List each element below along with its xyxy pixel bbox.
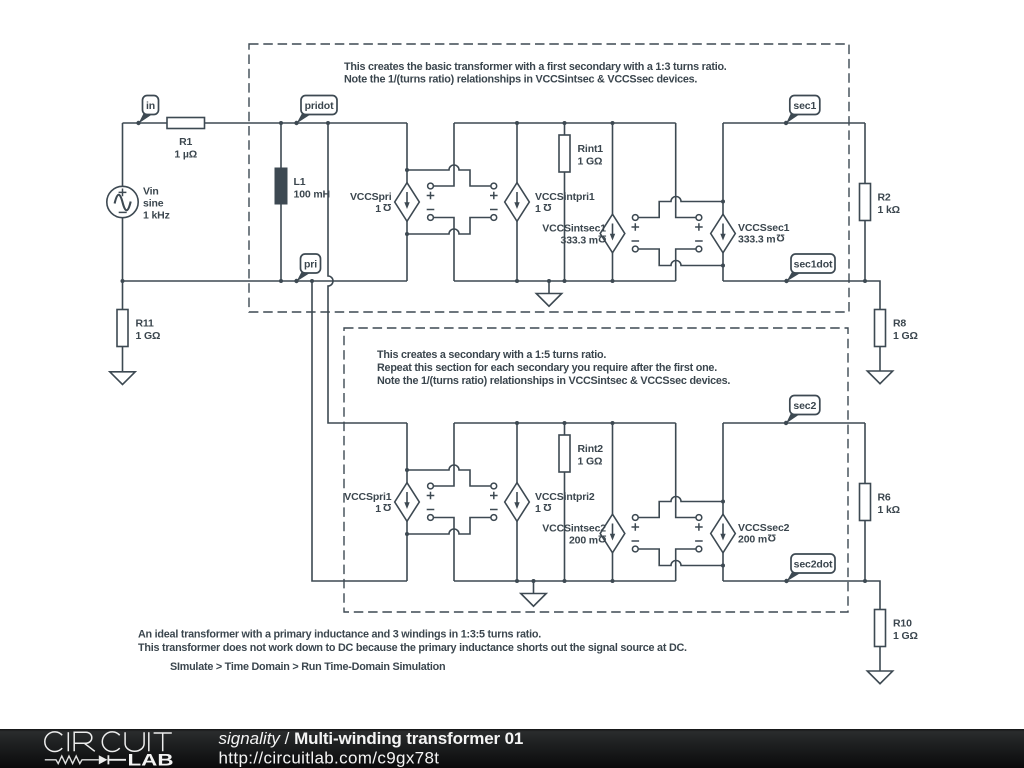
resistor R8 body xyxy=(875,310,886,347)
port terminal VCCSsec2 A- xyxy=(632,546,638,552)
svg-text:sine: sine xyxy=(143,198,164,210)
svg-text:1 kΩ: 1 kΩ xyxy=(878,204,900,216)
svg-text:R2: R2 xyxy=(878,192,891,204)
svg-text:R10: R10 xyxy=(893,618,912,630)
svg-text:1 GΩ: 1 GΩ xyxy=(893,630,918,642)
resistor Rint2 body xyxy=(559,435,570,472)
svg-text:200 m: 200 m xyxy=(738,533,767,545)
VCCS VCCSpri vertical wire xyxy=(406,123,408,281)
svg-text:This transformer does not work: This transformer does not work down to D… xyxy=(138,642,687,654)
svg-text:sec2dot: sec2dot xyxy=(794,558,833,570)
Vin sine glyph xyxy=(115,195,131,211)
svg-text:Note the 1/(turns ratio) relat: Note the 1/(turns ratio) relationships i… xyxy=(377,375,730,387)
port terminal VCCSpri B- xyxy=(491,215,497,221)
svg-text:pridot: pridot xyxy=(305,100,334,112)
port terminal VCCSpri A+ xyxy=(428,183,434,189)
svg-text:VCCSintsec2: VCCSintsec2 xyxy=(542,523,606,535)
junction VCCSpri top xyxy=(405,168,409,172)
wire R2 bottom to R8 xyxy=(865,281,880,310)
minus mark VCCSsec2 A xyxy=(632,540,640,542)
minus mark VCCSsec2 B xyxy=(695,540,703,542)
bottom bar xyxy=(0,729,1024,768)
junction Rint1 bottom rail xyxy=(563,279,567,283)
wire bottom rail secdot net section1 xyxy=(723,280,865,282)
dashed box: basic transformer section xyxy=(249,44,849,312)
junction pri vertical xyxy=(310,279,314,283)
ground below R10 xyxy=(879,647,881,672)
node flag sec1dot xyxy=(787,271,802,282)
wire top rail int net section2 xyxy=(454,422,676,424)
wire VCCSsec2 sense top (hop) xyxy=(638,497,723,518)
VCCS VCCSsec1 arrow xyxy=(722,224,724,237)
wire port right bottom VCCSsec2 xyxy=(676,549,696,581)
resistor R1 body xyxy=(167,118,205,129)
node flag sec2 xyxy=(786,413,800,424)
VCCS VCCSsec1 diamond xyxy=(711,214,736,253)
wire port left top VCCSpri xyxy=(433,123,454,186)
plus mark VCCSpri1 B xyxy=(490,492,498,500)
ground section1 xyxy=(548,281,550,294)
junction ground section2 xyxy=(532,579,536,583)
node flag sec2dot xyxy=(787,571,802,582)
Vin minus mark xyxy=(119,211,127,213)
plus mark VCCSsec2 B xyxy=(695,523,703,531)
VCCS VCCSintpri1 vertical wire xyxy=(516,123,518,281)
plus mark VCCSsec1 B xyxy=(695,223,703,231)
junction VCCSsec2 top xyxy=(721,500,725,504)
plus mark VCCSpri A xyxy=(427,192,435,200)
svg-text:Ω: Ω xyxy=(776,231,784,243)
wire port left bottom VCCSpri1 xyxy=(433,518,454,582)
ground below R11 xyxy=(122,347,124,372)
VCCS VCCSintsec2 vertical wire xyxy=(612,423,614,581)
plus mark VCCSsec2 A xyxy=(632,523,640,531)
wire port left top VCCSpri1 xyxy=(433,423,454,486)
wire bottom rail gnd net section1 xyxy=(454,280,676,282)
wire bottom rail pri net xyxy=(123,280,408,282)
svg-text:Rint2: Rint2 xyxy=(578,443,604,455)
VCCS VCCSpri arrow xyxy=(406,192,408,205)
wire top rail sec net section1 xyxy=(723,122,865,124)
svg-text:Ω: Ω xyxy=(598,533,606,545)
svg-text:Vin: Vin xyxy=(143,186,159,198)
junction VCCSpri1 top xyxy=(405,468,409,472)
resistor Rint2 wire xyxy=(564,423,566,581)
svg-text:1 GΩ: 1 GΩ xyxy=(136,330,161,342)
junction VCCSsec1 bottom xyxy=(721,264,725,268)
svg-text:Ω: Ω xyxy=(598,233,606,245)
svg-text:R1: R1 xyxy=(179,136,192,148)
port terminal VCCSpri1 B+ xyxy=(491,483,497,489)
port terminal VCCSsec2 B+ xyxy=(696,515,702,521)
junction Rint2 bottom rail xyxy=(563,579,567,583)
junction pridot vertical xyxy=(326,121,330,125)
svg-text:1: 1 xyxy=(535,503,541,515)
VCCS VCCSsec2 vertical wire xyxy=(722,423,724,581)
ground below R8 xyxy=(879,347,881,372)
voltage source Vin leads xyxy=(122,123,124,187)
svg-text:1 GΩ: 1 GΩ xyxy=(893,330,918,342)
svg-text:R8: R8 xyxy=(893,318,906,330)
CircuitLab logo: CIRCUIT (drawn letters) xyxy=(45,732,172,752)
resistor R11 body xyxy=(117,310,128,347)
svg-text:sec1dot: sec1dot xyxy=(794,258,833,270)
junction VCCSsec2 bottom xyxy=(721,564,725,568)
wire pri to section2 bottom rail xyxy=(312,281,407,581)
port terminal VCCSsec2 B- xyxy=(696,546,702,552)
voltage source Vin circle xyxy=(107,186,138,217)
svg-text:Rint1: Rint1 xyxy=(578,143,604,155)
plus mark VCCSpri B xyxy=(490,192,498,200)
wire port left bottom VCCSpri xyxy=(433,218,454,282)
resistor R1 wire xyxy=(123,122,408,124)
svg-text:LAB: LAB xyxy=(128,750,174,768)
junction VCCSintpri2 top rail xyxy=(515,421,519,425)
plus mark VCCSsec1 A xyxy=(632,223,640,231)
svg-text:Ω: Ω xyxy=(543,501,551,513)
port terminal VCCSpri1 B- xyxy=(491,515,497,521)
VCCS VCCSintpri2 diamond xyxy=(505,483,530,522)
svg-text:sec2: sec2 xyxy=(793,400,816,412)
VCCS VCCSpri1 vertical wire xyxy=(406,423,408,581)
VCCS VCCSpri diamond xyxy=(395,183,420,222)
svg-text:1: 1 xyxy=(375,203,381,215)
junction R6/R10 xyxy=(863,579,867,583)
svg-text:100 mH: 100 mH xyxy=(294,189,330,201)
resistor R2 body xyxy=(860,184,871,221)
VCCS VCCSintpri1 diamond xyxy=(505,183,530,222)
resistor R2 wire xyxy=(864,123,866,281)
wire VCCSpri1 sense top (hop) xyxy=(407,465,491,486)
wire top rail sec net section2 xyxy=(723,422,865,424)
VCCS VCCSintsec2 arrow xyxy=(612,524,614,537)
svg-text:sec1: sec1 xyxy=(793,100,816,112)
junction R2/R8 xyxy=(863,279,867,283)
resistor R10 body xyxy=(875,610,886,647)
svg-text:1 GΩ: 1 GΩ xyxy=(578,456,603,468)
junction VCCSintsec2 bottom rail xyxy=(611,579,615,583)
wire VCCSsec1 sense top (hop) xyxy=(638,197,723,218)
port terminal VCCSsec1 B+ xyxy=(696,215,702,221)
inductor L1 wire xyxy=(280,123,282,281)
junction VCCSintpri1 top rail xyxy=(515,121,519,125)
VCCS VCCSintsec1 arrow xyxy=(612,224,614,237)
wire top rail int net section1 xyxy=(454,122,676,124)
port terminal VCCSsec1 A+ xyxy=(632,215,638,221)
minus mark VCCSpri B xyxy=(490,209,498,211)
node flag in xyxy=(139,113,153,124)
wire VCCSsec1 sense bottom (hop) xyxy=(638,249,723,266)
VCCS VCCSsec2 diamond xyxy=(711,514,736,553)
CircuitLab logo: resistor+diode glyph xyxy=(45,756,99,764)
node flag pri xyxy=(297,271,311,282)
wire VCCSpri sense top (hop) xyxy=(407,165,491,186)
VCCS VCCSpri1 arrow xyxy=(406,492,408,505)
junction VCCSintsec1 bottom rail xyxy=(611,279,615,283)
wire port right bottom VCCSsec1 xyxy=(676,249,696,281)
dashed box: 1:5 secondary section xyxy=(344,328,848,612)
junction VCCSpri1 bottom xyxy=(405,532,409,536)
svg-text:L1: L1 xyxy=(294,176,306,188)
VCCS VCCSintpri2 arrow xyxy=(516,492,518,505)
junction VCCSsec1 top xyxy=(721,200,725,204)
port terminal VCCSsec2 A+ xyxy=(632,515,638,521)
wire pridot to section2 top rail (hops over pri rail) xyxy=(328,123,407,423)
port terminal VCCSsec1 A- xyxy=(632,246,638,252)
svg-text:http://circuitlab.com/c9gx78t: http://circuitlab.com/c9gx78t xyxy=(219,749,440,768)
svg-text:1 kΩ: 1 kΩ xyxy=(878,504,900,516)
svg-text:Repeat this section for each s: Repeat this section for each secondary y… xyxy=(377,362,717,374)
svg-text:Ω: Ω xyxy=(768,531,776,543)
junction ground section1 xyxy=(547,279,551,283)
svg-text:1 kHz: 1 kHz xyxy=(143,210,170,222)
wire bottom rail secdot net section2 xyxy=(723,580,865,582)
VCCS VCCSintpri1 arrow xyxy=(516,192,518,205)
VCCS VCCSsec2 arrow xyxy=(722,524,724,537)
wire port right top VCCSsec2 xyxy=(676,423,696,518)
VCCS VCCSintsec1 diamond xyxy=(600,214,625,253)
resistor R6 wire xyxy=(864,423,866,581)
VCCS VCCSintpri2 vertical wire xyxy=(516,423,518,581)
svg-text:1: 1 xyxy=(375,503,381,515)
svg-text:SImulate > Time Domain > Run T: SImulate > Time Domain > Run Time-Domain… xyxy=(170,661,445,673)
resistor R11 wire xyxy=(122,281,124,347)
junction Rint2 top rail xyxy=(563,421,567,425)
svg-text:VCCSsec2: VCCSsec2 xyxy=(738,522,790,534)
wire VCCSsec2 sense bottom (hop) xyxy=(638,549,723,566)
junction VCCSintpri2 bottom rail xyxy=(515,579,519,583)
svg-text:signality / Multi-winding tran: signality / Multi-winding transformer 01 xyxy=(219,729,524,748)
wire port right top VCCSsec1 xyxy=(676,123,696,218)
VCCS VCCSintsec1 vertical wire xyxy=(612,123,614,281)
junction Vin/R11/rail xyxy=(121,279,125,283)
ground section2 xyxy=(533,581,535,594)
wire VCCSpri sense bottom (hop) xyxy=(407,218,491,235)
inductor L1 body xyxy=(275,168,288,205)
svg-text:200 m: 200 m xyxy=(569,534,598,546)
node flag pridot xyxy=(297,113,312,124)
junction L1 top xyxy=(279,121,283,125)
svg-text:333.3 m: 333.3 m xyxy=(561,234,598,246)
junction VCCSintpri1 bottom rail xyxy=(515,279,519,283)
resistor R6 body xyxy=(860,484,871,521)
minus mark VCCSpri A xyxy=(427,209,435,211)
junction VCCSpri bottom xyxy=(405,232,409,236)
svg-text:1: 1 xyxy=(535,203,541,215)
VCCS VCCSintsec2 diamond xyxy=(600,514,625,553)
svg-text:pri: pri xyxy=(304,258,317,270)
resistor Rint1 body xyxy=(559,135,570,172)
wire bottom rail gnd net section2 xyxy=(454,580,676,582)
VCCS VCCSpri1 diamond xyxy=(395,483,420,522)
wire VCCSpri1 sense bottom (hop) xyxy=(407,518,491,535)
port terminal VCCSpri A- xyxy=(428,215,434,221)
svg-text:Ω: Ω xyxy=(543,201,551,213)
Vin plus mark xyxy=(119,189,127,197)
svg-text:1 µΩ: 1 µΩ xyxy=(174,149,197,161)
svg-text:Ω: Ω xyxy=(383,201,391,213)
svg-text:This creates a secondary with: This creates a secondary with a 1:5 turn… xyxy=(377,349,606,361)
minus mark VCCSpri1 B xyxy=(490,509,498,511)
port terminal VCCSpri1 A- xyxy=(428,515,434,521)
junction VCCSintsec1 top rail xyxy=(611,121,615,125)
port terminal VCCSpri B+ xyxy=(491,183,497,189)
svg-text:VCCSintsec1: VCCSintsec1 xyxy=(542,223,606,235)
port terminal VCCSpri1 A+ xyxy=(428,483,434,489)
minus mark VCCSsec1 A xyxy=(632,240,640,242)
svg-text:R11: R11 xyxy=(136,318,155,330)
junction Rint1 top rail xyxy=(563,121,567,125)
minus mark VCCSpri1 A xyxy=(427,509,435,511)
svg-text:Ω: Ω xyxy=(383,501,391,513)
svg-text:1 GΩ: 1 GΩ xyxy=(578,156,603,168)
junction VCCSintsec2 top rail xyxy=(611,421,615,425)
junction L1 bottom xyxy=(279,279,283,283)
svg-text:333.3 m: 333.3 m xyxy=(738,233,775,245)
svg-text:This creates the basic transfo: This creates the basic transformer with … xyxy=(344,61,727,73)
svg-text:in: in xyxy=(146,100,155,112)
node flag sec1 xyxy=(786,113,800,124)
port terminal VCCSsec1 B- xyxy=(696,246,702,252)
resistor Rint1 wire xyxy=(564,123,566,281)
minus mark VCCSsec1 B xyxy=(695,240,703,242)
svg-text:An ideal transformer with a pr: An ideal transformer with a primary indu… xyxy=(138,629,541,641)
plus mark VCCSpri1 A xyxy=(427,492,435,500)
VCCS VCCSsec1 vertical wire xyxy=(722,123,724,281)
svg-text:R6: R6 xyxy=(878,492,891,504)
svg-text:Note the 1/(turns ratio) relat: Note the 1/(turns ratio) relationships i… xyxy=(344,74,697,86)
wire R6 bottom to R10 xyxy=(865,581,880,610)
